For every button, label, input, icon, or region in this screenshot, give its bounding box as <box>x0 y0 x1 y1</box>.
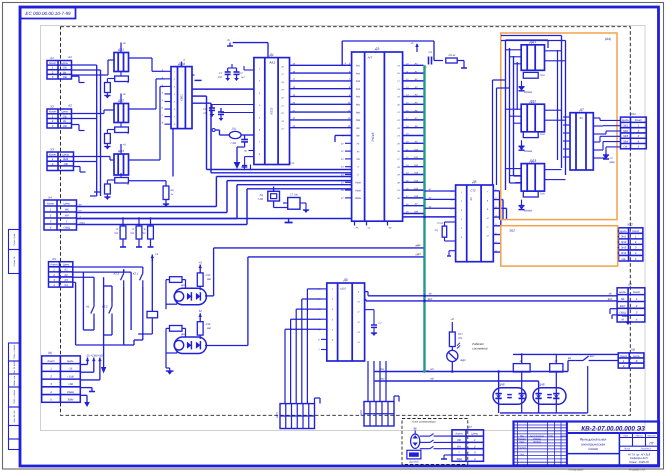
svg-text:С10: С10 <box>290 162 295 165</box>
svg-text:ОВ: ОВ <box>63 75 67 79</box>
svg-text:Конт: Конт <box>49 61 57 65</box>
svg-text:Т: Т <box>66 220 68 224</box>
svg-text:200: 200 <box>457 337 463 340</box>
svg-text:ЗН1: ЗН1 <box>621 235 627 239</box>
svg-text:ХМ2: ХМ2 <box>379 378 386 381</box>
svg-text:ОБЩ: ОБЩ <box>619 311 626 315</box>
svg-text:ДА: ДА <box>180 284 185 287</box>
svg-text:Новос. 1999-00: Новос. 1999-00 <box>629 460 649 464</box>
svg-text:+5В: +5В <box>68 382 73 386</box>
svg-text:А1: А1 <box>67 55 72 59</box>
svg-text:ВКЛ: ВКЛ <box>590 355 595 358</box>
svg-text:Д1: Д1 <box>269 53 274 57</box>
svg-text:состояние: состояние <box>472 347 488 351</box>
svg-text:ЗВД: ЗВД <box>456 457 462 461</box>
svg-text:2: 2 <box>637 129 640 133</box>
svg-text:Н.контр.: Н.контр. <box>517 447 527 450</box>
svg-text:Масса: Масса <box>635 435 643 438</box>
svg-text:Справ. №: Справ. № <box>13 256 16 267</box>
svg-text:2: 2 <box>49 374 52 378</box>
svg-text:Цепь: Цепь <box>619 290 626 294</box>
svg-text:А10: А10 <box>413 148 419 151</box>
svg-text:ДД2: ДД2 <box>529 99 537 103</box>
svg-text:Пров.: Пров. <box>519 441 525 444</box>
svg-text:Инв. № дубл.: Инв. № дубл. <box>13 360 16 374</box>
svg-text:Конт: Конт <box>50 263 58 267</box>
svg-text:ЗВ: ЗВ <box>429 293 432 296</box>
svg-text:ВхВ: ВхВ <box>63 157 68 161</box>
svg-text:7.4М: 7.4М <box>257 198 263 201</box>
svg-text:ДА: ДА <box>180 333 185 336</box>
svg-text:22п: 22п <box>217 76 223 79</box>
svg-text:Инв. № под.: Инв. № под. <box>13 410 16 423</box>
svg-text:ФК: ФК <box>65 208 69 212</box>
svg-text:Мб/6кВ: Мб/6кВ <box>524 210 532 213</box>
svg-text:К572: К572 <box>269 107 273 114</box>
svg-text:РВ2: РВ2 <box>356 111 361 114</box>
svg-text:ШР1: ШР1 <box>276 412 279 418</box>
svg-text:Дата: Дата <box>560 434 567 437</box>
svg-text:Цепь: Цепь <box>67 359 74 363</box>
svg-text:ЗВ: ЗВ <box>621 297 625 301</box>
svg-text:Конт: Конт <box>633 290 641 294</box>
svg-text:Листов 1: Листов 1 <box>640 448 652 451</box>
svg-text:R16: R16 <box>206 323 211 326</box>
svg-text:21: 21 <box>280 104 283 107</box>
svg-text:Петров: Петров <box>533 441 542 444</box>
svg-text:РА0: РА0 <box>356 96 361 99</box>
svg-text:А14: А14 <box>413 180 419 183</box>
svg-text:К1.1: К1.1 <box>114 271 120 275</box>
svg-text:Цепь: Цепь <box>63 263 70 267</box>
svg-text:РВ3: РВ3 <box>356 119 361 122</box>
svg-text:+5В: +5В <box>97 353 102 357</box>
svg-text:ОВ: ОВ <box>457 438 461 442</box>
svg-text:ЗВ2: ЗВ2 <box>623 129 629 133</box>
svg-text:В: В <box>636 359 638 363</box>
svg-text:2: 2 <box>49 214 52 218</box>
svg-text:R: R <box>127 133 129 136</box>
svg-text:ZQ: ZQ <box>259 194 264 197</box>
svg-text:ОВ: ОВ <box>356 158 360 161</box>
svg-text:ЗВ1: ЗВ1 <box>623 124 629 128</box>
svg-text:ТОН: ТОН <box>540 74 545 77</box>
svg-text:ЗЧ: ЗЧ <box>470 197 473 201</box>
svg-text:+5: +5 <box>198 260 202 264</box>
svg-text:А13: А13 <box>413 172 419 175</box>
svg-text:К4: К4 <box>65 283 69 287</box>
svg-text:+5: +5 <box>226 38 230 42</box>
svg-text:Цепь: Цепь <box>622 118 629 122</box>
svg-text:11: 11 <box>486 226 488 229</box>
svg-text:К2.1: К2.1 <box>133 271 139 275</box>
svg-text:Рабочее: Рабочее <box>472 342 484 346</box>
svg-text:ZQ: ZQ <box>434 229 438 232</box>
svg-text:Мб/6кВ: Мб/6кВ <box>524 91 532 94</box>
svg-text:К155: К155 <box>340 288 346 291</box>
svg-text:РВ/В: РВ/В <box>355 189 361 192</box>
svg-text:Х2: Х2 <box>49 104 54 108</box>
svg-text:R: R <box>127 183 129 186</box>
svg-text:Конт: Конт <box>49 153 57 157</box>
svg-text:R: R <box>127 82 129 85</box>
svg-text:ЗН4: ЗН4 <box>621 251 627 255</box>
svg-text:680: 680 <box>207 278 212 281</box>
svg-text:2: 2 <box>473 444 476 448</box>
svg-text:24: 24 <box>202 112 206 115</box>
svg-text:Дисплей: Дисплей <box>408 461 419 464</box>
svg-text:2: 2 <box>634 240 637 244</box>
svg-text:11: 11 <box>357 311 359 314</box>
svg-text:2: 2 <box>635 304 638 308</box>
svg-text:Функциональная: Функциональная <box>580 438 607 442</box>
svg-text:Подп. и дата: Подп. и дата <box>13 344 16 358</box>
svg-text:1: 1 <box>332 288 333 291</box>
svg-text:Х4: Х4 <box>47 195 52 199</box>
svg-text:2: 2 <box>51 119 54 123</box>
svg-text:ОБЩ: ОБЩ <box>67 390 74 394</box>
svg-text:1: 1 <box>259 68 260 71</box>
svg-text:К1: К1 <box>65 268 69 272</box>
svg-text:Изм.: Изм. <box>520 434 525 437</box>
svg-text:РВ/Вх: РВ/Вх <box>355 197 362 200</box>
svg-text:НР: НР <box>78 210 82 213</box>
svg-text:Д7: Д7 <box>579 108 584 112</box>
svg-text:Конт: Конт <box>620 354 628 358</box>
svg-text:Цепь: Цепь <box>61 61 68 65</box>
svg-text:Конт: Конт <box>47 202 55 206</box>
svg-text:РА4: РА4 <box>356 88 361 91</box>
svg-text:ОБ: ОБ <box>624 145 628 149</box>
svg-text:А12: А12 <box>413 164 419 167</box>
svg-text:ОВ: ОВ <box>64 162 68 166</box>
svg-text:ОП: ОП <box>417 253 421 256</box>
svg-text:ЗЧ: ЗЧ <box>579 116 583 120</box>
svg-text:схема: схема <box>588 447 597 451</box>
svg-text:Д3: Д3 <box>374 47 379 51</box>
svg-text:В1: В1 <box>568 357 572 360</box>
svg-text:ЛТ: ЛТ <box>648 441 654 445</box>
svg-text:Х6: Х6 <box>47 351 52 355</box>
svg-text:Мб/р: Мб/р <box>609 161 615 164</box>
svg-text:ХВ: ХВ <box>630 348 635 352</box>
svg-text:А15: А15 <box>413 187 419 190</box>
svg-text:А2: А2 <box>67 104 72 108</box>
svg-text:Подп.: Подп. <box>548 434 554 437</box>
svg-text:Конт: Конт <box>455 432 463 436</box>
svg-text:ВД3: ВД3 <box>461 359 466 362</box>
svg-text:Блок сигнализации: Блок сигнализации <box>412 421 436 424</box>
svg-text:22В: 22В <box>413 211 419 214</box>
svg-text:ОБЩ: ОБЩ <box>63 226 70 230</box>
svg-text:ЗН3: ЗН3 <box>621 246 627 250</box>
svg-text:ЗВ: ЗВ <box>609 293 612 296</box>
svg-text:Конт: Конт <box>635 118 643 122</box>
svg-text:КВ-2-07.00.00.000 Э3: КВ-2-07.00.00.000 Э3 <box>581 426 645 433</box>
svg-text:ТОН: ТОН <box>540 193 545 196</box>
svg-text:РВ/В: РВ/В <box>355 182 361 185</box>
svg-text:2: 2 <box>51 162 54 166</box>
svg-text:ЗВ4: ЗВ4 <box>623 139 629 143</box>
svg-text:ЗН2: ЗН2 <box>621 240 627 244</box>
svg-text:680: 680 <box>207 327 212 330</box>
svg-text:R15: R15 <box>206 274 211 277</box>
svg-text:ТОН: ТОН <box>540 133 545 136</box>
svg-text:Цепь: Цепь <box>63 202 70 206</box>
svg-text:ЗВ2: ЗВ2 <box>509 229 515 233</box>
svg-text:+15В: +15В <box>67 374 74 378</box>
svg-text:Иванов: Иванов <box>533 438 541 441</box>
svg-text:2: 2 <box>51 70 54 74</box>
svg-text:РА3: РА3 <box>356 80 361 83</box>
svg-text:РА1: РА1 <box>356 65 361 68</box>
svg-text:Конт: Конт <box>632 229 640 233</box>
svg-text:Цепь: Цепь <box>61 110 68 114</box>
svg-text:РА2: РА2 <box>356 72 361 75</box>
svg-text:1: 1 <box>461 191 462 194</box>
svg-text:ЗВ3: ЗВ3 <box>623 134 629 138</box>
svg-text:Х5: Х5 <box>51 257 56 261</box>
svg-text:Цепь: Цепь <box>62 153 69 157</box>
svg-text:ВКЛ: ВКЛ <box>428 298 433 301</box>
svg-text:Цепь: Цепь <box>620 229 627 233</box>
svg-text:R1 1к: R1 1к <box>449 54 456 57</box>
svg-text:ШР2: ШР2 <box>360 410 363 416</box>
svg-text:К2: К2 <box>65 273 69 277</box>
svg-text:Цепь: Цепь <box>633 354 640 358</box>
svg-text:Перв. прим.: Перв. прим. <box>13 233 16 246</box>
svg-text:ВКЛ: ВКЛ <box>608 298 613 301</box>
svg-text:НР: НР <box>65 214 69 218</box>
svg-text:С7 10п: С7 10п <box>290 194 299 197</box>
svg-text:Х1: Х1 <box>49 56 54 60</box>
svg-text:А11: А11 <box>413 156 419 159</box>
svg-text:Мб/6кВ: Мб/6кВ <box>524 150 532 153</box>
svg-text:Х3: Х3 <box>49 147 54 151</box>
svg-text:PIC16: PIC16 <box>371 132 375 141</box>
svg-text:Лист: Лист <box>623 448 630 451</box>
svg-text:Лист № докум.: Лист № докум. <box>529 434 545 437</box>
svg-text:ЛБ: ЛБ <box>388 227 392 230</box>
svg-text:Конт: Конт <box>48 359 56 363</box>
svg-text:Т: Т <box>458 451 460 455</box>
svg-text:7.3М: 7.3М <box>230 142 237 145</box>
svg-text:ОБ: ОБ <box>622 257 626 261</box>
svg-text:С4: С4 <box>428 51 432 54</box>
svg-text:+5: +5 <box>155 252 159 256</box>
svg-text:R17: R17 <box>458 333 463 336</box>
svg-text:РВ1: РВ1 <box>356 104 361 107</box>
svg-text:ОБЩ: ОБЩ <box>79 222 84 225</box>
svg-text:ОВ: ОВ <box>63 124 67 128</box>
svg-text:ХS1: ХS1 <box>629 112 636 116</box>
svg-text:- 3В: - 3В <box>411 427 416 431</box>
svg-text:К1: К1 <box>86 305 90 309</box>
svg-text:ВФ: ВФ <box>356 127 359 130</box>
svg-text:Копировал: Копировал <box>569 468 584 472</box>
svg-text:ZQ1: ZQ1 <box>230 127 237 130</box>
svg-text:ЕС 000.00.00.10-7-99: ЕС 000.00.00.10-7-99 <box>25 11 71 16</box>
svg-text:ТС1б: ТС1б <box>437 222 444 225</box>
svg-text:1: 1 <box>174 70 175 73</box>
svg-text:ДД3: ДД3 <box>529 159 537 163</box>
svg-text:ОБ: ОБ <box>63 114 67 118</box>
svg-text:СТ2: СТ2 <box>470 189 476 193</box>
svg-text:Утв.: Утв. <box>520 453 525 456</box>
svg-text:электрическая: электрическая <box>581 442 605 446</box>
svg-text:К3: К3 <box>65 278 69 282</box>
svg-text:-15: -15 <box>68 367 72 371</box>
svg-text:2: 2 <box>622 364 625 368</box>
svg-text:Д6: Д6 <box>343 278 348 282</box>
svg-text:ЗВМ: ЗВМ <box>67 398 74 402</box>
svg-text:Цепь: Цепь <box>471 432 478 436</box>
svg-text:ОБ: ОБ <box>63 66 67 70</box>
svg-text:К561: К561 <box>179 94 183 101</box>
svg-text:Л: Л <box>182 59 185 62</box>
svg-text:Взам. инв.: Взам. инв. <box>13 375 16 386</box>
svg-text:ВКЛ: ВКЛ <box>620 304 626 308</box>
svg-text:Формат А3: Формат А3 <box>629 468 646 472</box>
svg-text:2: 2 <box>52 273 55 277</box>
svg-text:Лит.: Лит. <box>622 435 629 438</box>
svg-text:Подп. и дата: Подп. и дата <box>13 389 16 403</box>
svg-text:А16: А16 <box>413 195 419 198</box>
svg-text:ЛТ: ЛТ <box>414 203 419 206</box>
svg-text:ХS2: ХS2 <box>626 223 633 227</box>
svg-text:Д5: Д5 <box>471 180 476 184</box>
svg-text:ХМ1: ХМ1 <box>379 368 386 371</box>
svg-text:ХР: ХР <box>627 283 632 287</box>
svg-text:Конт: Конт <box>49 110 57 114</box>
svg-text:А/Ц: А/Ц <box>268 61 275 65</box>
svg-text:ВФ: ВФ <box>356 135 359 138</box>
svg-text:К2.2: К2.2 <box>102 305 108 309</box>
svg-text:Масшт.: Масшт. <box>647 435 656 438</box>
svg-text:(А4): (А4) <box>605 37 611 41</box>
svg-text:Разраб.: Разраб. <box>518 438 526 441</box>
